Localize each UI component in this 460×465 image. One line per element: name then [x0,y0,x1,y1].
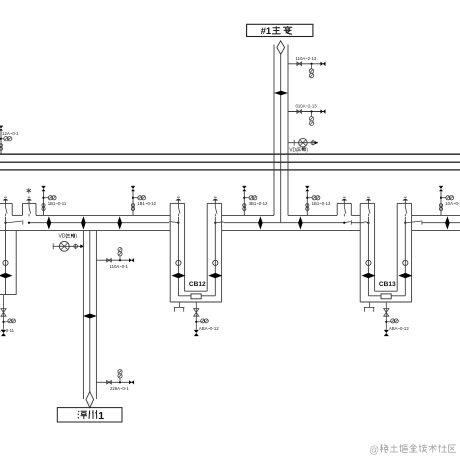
svg-text:@: @ [369,445,379,456]
svg-text:10A~0-14: 10A~0-14 [445,201,460,206]
svg-text:ABA~0-12: ABA~0-12 [199,326,219,331]
svg-text:CB13: CB13 [379,281,396,288]
svg-text:1: 1 [98,410,104,422]
svg-text:12A~0-1: 12A~0-1 [2,131,19,136]
svg-text:CB12: CB12 [189,281,206,288]
svg-text:110A~0-1: 110A~0-1 [110,264,129,269]
svg-text:226A~0-1: 226A~0-1 [110,386,129,391]
svg-text:#1: #1 [261,26,272,37]
svg-text:110A~2-13: 110A~2-13 [296,56,317,61]
svg-text:1B1~0-12: 1B1~0-12 [137,201,156,206]
svg-text:3B1~0-12: 3B1~0-12 [249,201,268,206]
svg-text:VD(: VD( [289,147,298,153]
svg-text:VD(: VD( [59,234,68,240]
svg-text:010A~2-13: 010A~2-13 [296,104,318,109]
svg-text:1B1~0-13: 1B1~0-13 [312,201,331,206]
svg-text:1B1~0-11: 1B1~0-11 [48,201,67,206]
svg-text:ABA~0-13: ABA~0-13 [389,326,409,331]
